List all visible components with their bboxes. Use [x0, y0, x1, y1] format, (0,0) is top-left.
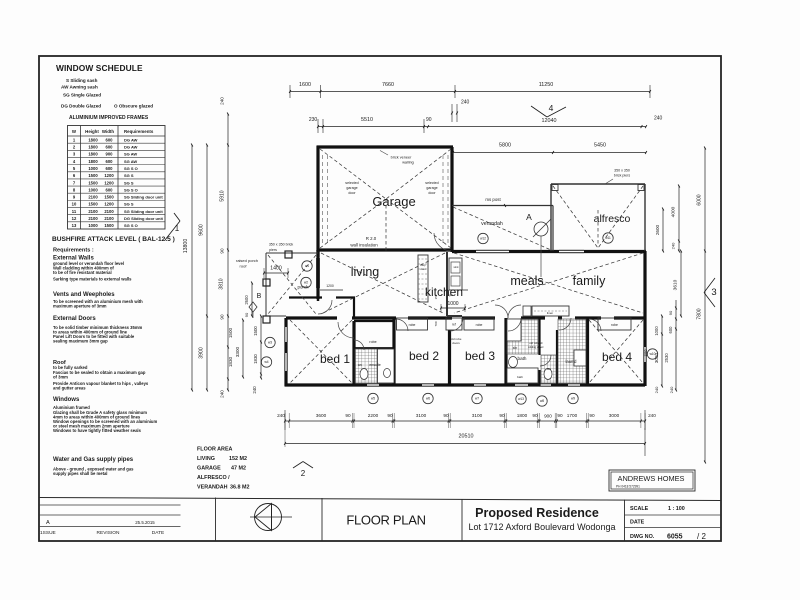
svg-text:ANDREWS HOMES: ANDREWS HOMES — [618, 474, 685, 483]
svg-text:90: 90 — [668, 310, 673, 315]
svg-text:600: 600 — [106, 159, 114, 164]
svg-text:1000: 1000 — [88, 187, 98, 192]
svg-text:laun'd: laun'd — [565, 359, 577, 364]
svg-text:600: 600 — [106, 166, 114, 171]
svg-text:7800: 7800 — [697, 308, 703, 319]
svg-text:240: 240 — [671, 242, 676, 249]
svg-text:90: 90 — [220, 248, 225, 254]
svg-text:w5: w5 — [371, 397, 375, 401]
svg-text:DG AW: DG AW — [124, 137, 138, 142]
svg-text:Windows to have tightly fitted: Windows to have tightly fitted weather s… — [53, 428, 142, 433]
svg-text:1500: 1500 — [253, 326, 258, 336]
svg-text:alfresco: alfresco — [594, 213, 631, 225]
svg-text:1200: 1200 — [104, 173, 114, 178]
svg-text:SG AW: SG AW — [124, 152, 137, 157]
svg-text:5450: 5450 — [594, 143, 606, 149]
svg-text:1800: 1800 — [88, 145, 98, 150]
svg-text:PH 0418 572991: PH 0418 572991 — [616, 485, 640, 489]
svg-text:kitchen: kitchen — [425, 285, 463, 299]
svg-text:3100: 3100 — [416, 413, 427, 418]
svg-text:90: 90 — [589, 413, 595, 418]
svg-text:600: 600 — [668, 326, 673, 334]
svg-text:1200: 1200 — [104, 180, 114, 185]
svg-text:robe: robe — [369, 340, 376, 344]
svg-text:w1: w1 — [305, 264, 309, 268]
svg-text:Windows: Windows — [53, 397, 80, 403]
svg-text:Proposed Residence: Proposed Residence — [475, 506, 599, 520]
svg-text:3: 3 — [711, 287, 716, 298]
svg-text:BUSHFIRE ATTACK LEVEL ( BAL-1: BUSHFIRE ATTACK LEVEL ( BAL-12.5 ) — [52, 236, 175, 243]
svg-text:ensuite: ensuite — [369, 363, 381, 367]
svg-text:1800: 1800 — [88, 159, 98, 164]
svg-text:SG S O: SG S O — [124, 166, 138, 171]
svg-text:Width: Width — [102, 129, 114, 134]
svg-text:SG S: SG S — [124, 173, 134, 178]
svg-text:150: 150 — [434, 294, 438, 299]
svg-text:w6: w6 — [426, 397, 430, 401]
svg-text:3610: 3610 — [673, 279, 679, 290]
svg-text:to be of fire resistant materi: to be of fire resistant material — [53, 270, 112, 275]
svg-text:verandah: verandah — [481, 221, 503, 227]
svg-text:3300: 3300 — [235, 346, 240, 357]
svg-text:linen: linen — [547, 311, 554, 315]
svg-text:1400: 1400 — [270, 266, 282, 272]
svg-text:1SSUE: 1SSUE — [40, 530, 56, 536]
svg-text:GARAGE: GARAGE — [197, 466, 221, 472]
svg-text:SG AW: SG AW — [124, 159, 137, 164]
svg-text:5800: 5800 — [499, 143, 511, 149]
svg-text:240: 240 — [277, 413, 285, 418]
svg-text:3810: 3810 — [219, 278, 225, 289]
svg-text:family: family — [573, 274, 606, 288]
svg-text:11: 11 — [72, 209, 77, 214]
svg-text:1000: 1000 — [447, 301, 458, 307]
svg-text:w2: w2 — [304, 281, 308, 285]
svg-text:door: door — [428, 191, 436, 195]
svg-text:12040: 12040 — [542, 118, 557, 124]
svg-text:supply pipes shall be metal: supply pipes shall be metal — [53, 471, 107, 476]
svg-text:900: 900 — [544, 414, 552, 419]
svg-text:wc: wc — [358, 363, 362, 367]
svg-text:and gutter areas: and gutter areas — [53, 386, 86, 391]
svg-text:1500: 1500 — [88, 173, 98, 178]
svg-text:SG S O: SG S O — [124, 223, 138, 228]
svg-text:wall insulation: wall insulation — [350, 243, 378, 248]
svg-text:A: A — [46, 520, 50, 526]
svg-text:900: 900 — [106, 152, 114, 157]
svg-text:1800: 1800 — [88, 137, 98, 142]
svg-text:FLOOR PLAN: FLOOR PLAN — [346, 513, 425, 528]
svg-text:230: 230 — [309, 117, 318, 123]
svg-text:240: 240 — [461, 100, 470, 106]
svg-text:REVISION: REVISION — [97, 530, 120, 536]
svg-text:robe: robe — [476, 323, 483, 327]
svg-text:SG Sliding door unit: SG Sliding door unit — [124, 195, 163, 200]
svg-text:240: 240 — [648, 413, 656, 418]
svg-text:240: 240 — [220, 97, 225, 105]
svg-text:door: door — [348, 191, 356, 195]
svg-text:1500: 1500 — [104, 195, 114, 200]
svg-text:2600: 2600 — [655, 224, 660, 235]
svg-text:1500: 1500 — [88, 202, 98, 207]
svg-text:1550: 1550 — [644, 349, 648, 356]
svg-text:Requirements: Requirements — [124, 129, 154, 134]
svg-text:bath: bath — [517, 375, 523, 379]
svg-text:350 x 350 brick: 350 x 350 brick — [269, 243, 294, 247]
svg-text:10: 10 — [72, 202, 77, 207]
svg-text:Lot 1712 Axford Boulevard Wodo: Lot 1712 Axford Boulevard Wodonga — [469, 522, 616, 532]
svg-text:SG S: SG S — [124, 180, 134, 185]
svg-text:90: 90 — [443, 413, 449, 418]
svg-text:1: 1 — [175, 224, 180, 233]
svg-text:piers: piers — [269, 248, 277, 252]
svg-text:240: 240 — [220, 390, 225, 398]
svg-text:robe: robe — [611, 323, 618, 327]
svg-text:LIVING: LIVING — [197, 456, 215, 462]
svg-text:20510: 20510 — [459, 434, 474, 440]
svg-text:A: A — [526, 212, 532, 222]
svg-text:240: 240 — [669, 386, 674, 393]
svg-text:350 x 350: 350 x 350 — [614, 169, 630, 173]
svg-text:240: 240 — [654, 386, 659, 393]
svg-text:ALFRESCO /: ALFRESCO / — [197, 475, 230, 481]
svg-text:Water and Gas supply pipes: Water and Gas supply pipes — [53, 457, 134, 463]
svg-text:25.5.2015: 25.5.2015 — [135, 520, 155, 525]
svg-text:1830: 1830 — [253, 354, 258, 364]
svg-text:w9: w9 — [571, 397, 575, 401]
svg-text:Requirements :: Requirements : — [53, 248, 94, 254]
svg-text:maximum aperture of 3mm: maximum aperture of 3mm — [53, 304, 107, 309]
svg-text:1000: 1000 — [654, 326, 659, 336]
svg-text:1830: 1830 — [228, 356, 233, 367]
svg-text:raised porch: raised porch — [236, 258, 258, 263]
svg-text:3600: 3600 — [316, 413, 327, 418]
svg-text:1600: 1600 — [299, 82, 311, 88]
svg-text:1000: 1000 — [88, 223, 98, 228]
svg-text:6000: 6000 — [697, 194, 703, 205]
svg-text:1700: 1700 — [567, 413, 578, 418]
svg-text:sliding dr wc: sliding dr wc — [528, 345, 544, 349]
svg-text:90: 90 — [244, 312, 249, 317]
svg-text:bed 2: bed 2 — [409, 349, 439, 363]
svg-text:brick piers: brick piers — [614, 174, 631, 178]
svg-text:DATE: DATE — [152, 530, 164, 536]
svg-text:2100: 2100 — [104, 216, 114, 221]
svg-text:600: 600 — [106, 137, 114, 142]
svg-text:selected: selected — [425, 181, 438, 185]
svg-text:Garage: Garage — [372, 194, 415, 209]
svg-text:of 3mm: of 3mm — [53, 375, 68, 380]
svg-text:SG Single Glazed: SG Single Glazed — [63, 93, 101, 98]
svg-text:brick veneer: brick veneer — [391, 156, 412, 160]
svg-text:bed 1: bed 1 — [320, 352, 350, 366]
svg-text:2: 2 — [301, 469, 306, 478]
svg-text:1000: 1000 — [88, 166, 98, 171]
svg-text:152 M2: 152 M2 — [229, 456, 247, 462]
svg-text:w3: w3 — [268, 341, 272, 345]
svg-text:ms post: ms post — [485, 197, 501, 202]
svg-text:1500: 1500 — [104, 223, 114, 228]
svg-text:Height: Height — [85, 129, 99, 134]
svg-text:living: living — [351, 265, 380, 279]
svg-text:SG S: SG S — [124, 202, 134, 207]
svg-text:240: 240 — [654, 116, 663, 122]
svg-text:garage: garage — [426, 186, 437, 190]
svg-text:DG Double Glazed: DG Double Glazed — [61, 104, 101, 109]
svg-text:7660: 7660 — [382, 82, 394, 88]
svg-text:5510: 5510 — [361, 117, 373, 123]
svg-text:3020: 3020 — [654, 352, 659, 363]
svg-text:90: 90 — [387, 413, 393, 418]
svg-text:SCALE: SCALE — [630, 506, 649, 512]
svg-text:ALUMINIUM IMPROVED FRAMES: ALUMINIUM IMPROVED FRAMES — [69, 115, 149, 121]
svg-text:/ 2: / 2 — [697, 532, 706, 541]
svg-text:w11: w11 — [605, 236, 611, 240]
svg-text:garage: garage — [346, 186, 357, 190]
svg-text:robe: robe — [409, 323, 416, 327]
svg-text:S Sliding sash: S Sliding sash — [66, 78, 98, 83]
svg-text:2100: 2100 — [88, 209, 98, 214]
svg-text:3000: 3000 — [609, 413, 620, 418]
svg-text:DATE: DATE — [630, 520, 645, 526]
svg-text:DG AW: DG AW — [124, 145, 138, 150]
svg-text:step: step — [421, 263, 426, 267]
svg-text:90: 90 — [345, 413, 351, 418]
svg-text:bed 4: bed 4 — [602, 350, 632, 364]
svg-text:w13: w13 — [518, 397, 524, 401]
svg-text:1 : 100: 1 : 100 — [668, 506, 685, 512]
svg-text:2200: 2200 — [368, 413, 379, 418]
svg-text:B: B — [257, 293, 262, 300]
svg-text:w4: w4 — [264, 360, 268, 364]
svg-text:Sarking type materials to exte: Sarking type materials to external walls — [53, 277, 132, 282]
svg-text:13800: 13800 — [183, 239, 189, 254]
svg-text:1800: 1800 — [88, 152, 98, 157]
svg-text:90: 90 — [220, 314, 225, 320]
svg-text:1200: 1200 — [326, 284, 334, 288]
svg-text:Vents and Weepholes: Vents and Weepholes — [53, 292, 115, 298]
svg-text:4000: 4000 — [671, 206, 677, 217]
svg-text:w7: w7 — [475, 397, 479, 401]
svg-text:R 2.0: R 2.0 — [366, 236, 377, 241]
svg-text:bed 3: bed 3 — [465, 349, 495, 363]
svg-text:sealing maximum 3mm gap: sealing maximum 3mm gap — [53, 339, 108, 344]
svg-text:SG S O: SG S O — [124, 187, 138, 192]
svg-text:90: 90 — [557, 413, 563, 418]
svg-text:9600: 9600 — [199, 224, 205, 236]
svg-text:240: 240 — [252, 386, 257, 394]
svg-text:w8: w8 — [540, 399, 544, 403]
svg-text:13: 13 — [72, 223, 77, 228]
svg-text:600: 600 — [106, 145, 114, 150]
svg-text:AW Awning sash: AW Awning sash — [61, 85, 98, 90]
svg-text:oven: oven — [420, 268, 426, 271]
svg-text:12: 12 — [72, 216, 77, 221]
svg-text:90: 90 — [426, 117, 432, 123]
svg-text:ref: ref — [452, 323, 456, 327]
svg-text:3900: 3900 — [199, 347, 205, 359]
svg-text:2100: 2100 — [88, 216, 98, 221]
svg-text:WINDOW SCHEDULE: WINDOW SCHEDULE — [56, 63, 143, 73]
svg-text:600: 600 — [106, 187, 114, 192]
svg-text:2100: 2100 — [104, 209, 114, 214]
svg-text:1500: 1500 — [228, 327, 233, 338]
svg-text:meals: meals — [510, 274, 543, 288]
svg-text:O Obscure glazed: O Obscure glazed — [114, 104, 153, 109]
svg-text:sink: sink — [454, 265, 460, 269]
svg-text:36.8 M2: 36.8 M2 — [230, 485, 249, 491]
svg-text:DG Sliding door unit: DG Sliding door unit — [124, 216, 164, 221]
svg-text:47 M2: 47 M2 — [231, 466, 246, 472]
svg-text:1200: 1200 — [104, 202, 114, 207]
svg-text:w12: w12 — [480, 237, 486, 241]
svg-text:1500: 1500 — [88, 180, 98, 185]
svg-text:doors: doors — [452, 341, 460, 345]
svg-text:90: 90 — [532, 413, 538, 418]
svg-text:6055: 6055 — [667, 534, 683, 541]
svg-text:700: 700 — [434, 321, 438, 326]
svg-text:11250: 11250 — [539, 82, 554, 88]
svg-text:4: 4 — [549, 103, 554, 113]
svg-text:walling: walling — [402, 161, 414, 165]
svg-text:External Doors: External Doors — [53, 316, 96, 322]
svg-text:bath: bath — [518, 356, 527, 361]
svg-text:2100: 2100 — [88, 195, 98, 200]
svg-text:selected: selected — [345, 181, 358, 185]
svg-text:FLOOR AREA: FLOOR AREA — [197, 447, 233, 453]
svg-text:2530: 2530 — [664, 353, 669, 363]
svg-text:DWG NO.: DWG NO. — [630, 534, 655, 540]
svg-text:2600: 2600 — [244, 295, 249, 305]
svg-text:1800: 1800 — [517, 413, 528, 418]
svg-text:5910: 5910 — [220, 190, 226, 201]
svg-text:90: 90 — [499, 413, 505, 418]
svg-text:wc: wc — [547, 367, 551, 371]
svg-text:roof: roof — [240, 264, 248, 269]
svg-text:SG Sliding door unit: SG Sliding door unit — [124, 209, 163, 214]
svg-text:3100: 3100 — [472, 413, 483, 418]
svg-text:VERANDAH: VERANDAH — [197, 485, 228, 491]
